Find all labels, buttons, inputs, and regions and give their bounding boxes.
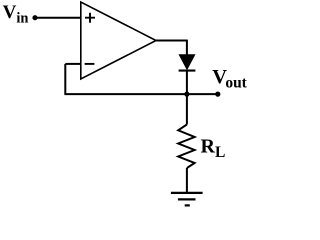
wire op-amp output xyxy=(156,40,187,42)
svg-text:RL: RL xyxy=(201,135,226,161)
ground xyxy=(171,193,203,206)
svg-text:Vin: Vin xyxy=(3,2,29,26)
junction dot at output node xyxy=(184,92,189,97)
wire inverting input pin xyxy=(65,63,80,65)
op-amp inverting (−) input marker xyxy=(85,63,95,65)
svg-text:Vout: Vout xyxy=(212,66,247,92)
wire output node to resistor xyxy=(186,94,188,124)
node Vout terminal dot xyxy=(215,92,220,97)
wire resistor to ground xyxy=(186,168,188,193)
op-amp U1 xyxy=(81,2,156,79)
resistor RL xyxy=(178,125,194,169)
wire diode anode xyxy=(186,40,188,56)
node Vin terminal dot xyxy=(32,15,37,20)
wire output node horizontal xyxy=(64,93,218,95)
wire feedback vertical xyxy=(64,64,66,94)
wire diode cathode to output node xyxy=(186,71,188,95)
diode D1 xyxy=(179,55,196,71)
wire Vin to op-amp noninverting input xyxy=(35,17,81,19)
op-amp noninverting (+) input marker xyxy=(85,13,95,23)
